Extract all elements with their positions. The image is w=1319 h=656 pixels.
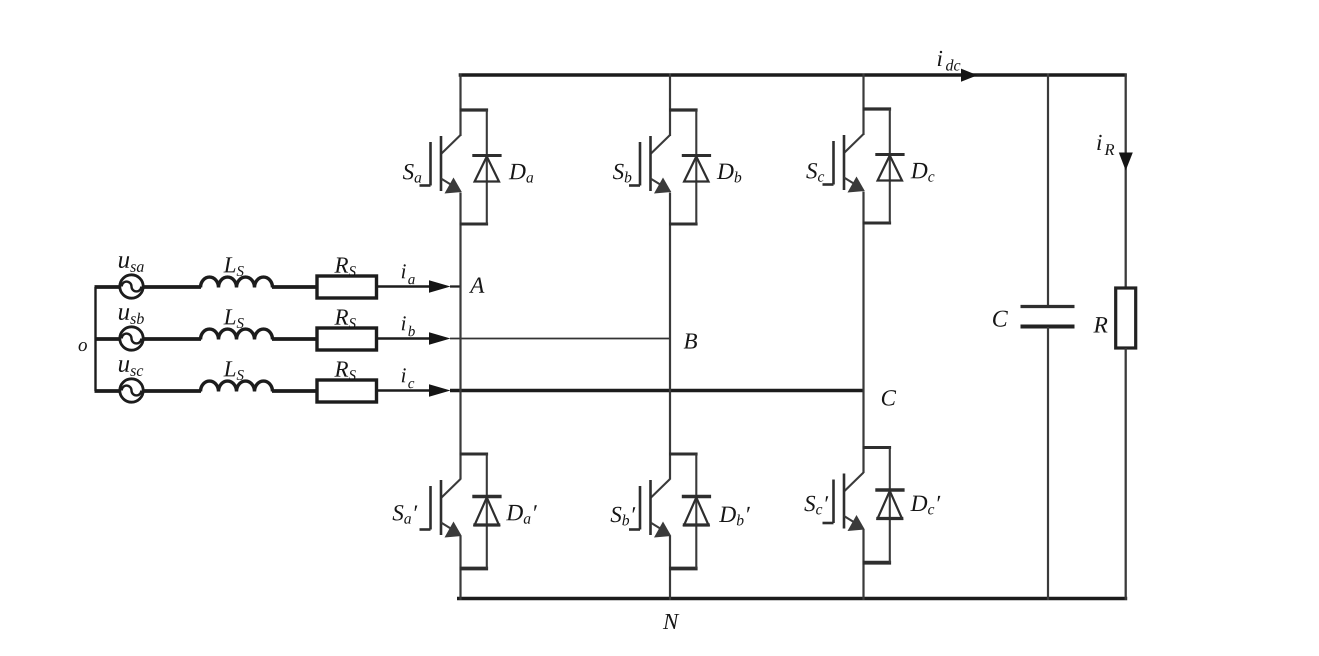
label i_dc (938, 51, 942, 66)
label u_sb (119, 308, 129, 320)
wire resistor to arrow i_b (377, 337, 435, 339)
label C (993, 311, 1008, 327)
IGBT S_a gate lead (420, 184, 431, 187)
IGBT S_c gate lead (823, 522, 834, 525)
current arrow i_dc (961, 69, 978, 82)
wire arrow to node B (450, 338, 671, 340)
IGBT S_c emitter arrow (844, 516, 855, 523)
AC source u_sa (120, 275, 143, 298)
AC source u_sb (120, 327, 143, 350)
wire upper jog (c) (863, 107, 892, 110)
IGBT S_a body bar (440, 480, 443, 535)
IGBT S_b emitter arrow (651, 179, 662, 186)
label R (1093, 317, 1107, 332)
wire lower jog (b) (669, 567, 698, 571)
IGBT S_c body bar (843, 474, 846, 529)
wire bottom DC rail (457, 597, 1127, 601)
label R_S (a) (334, 258, 348, 273)
wire phase leg c mid (862, 192, 864, 474)
IGBT S_a gate bar (429, 142, 432, 186)
wire inductor to resistor R_S (b) (272, 337, 317, 341)
current arrow i_R (1119, 153, 1133, 171)
wire phase leg b lower (669, 536, 671, 600)
label S_bprime (611, 507, 622, 522)
wire source to inductor L_S (c) (143, 389, 202, 393)
wire R branch lower (1125, 348, 1127, 600)
wire phase leg a mid (459, 193, 461, 480)
IGBT S_a emitter arrow (441, 179, 452, 186)
wire upper jog (b) (669, 453, 698, 456)
IGBT S_b body bar (649, 480, 652, 535)
wire phase leg b upper (669, 74, 671, 137)
label S_cprime (804, 496, 815, 511)
label D_aprime (506, 505, 523, 520)
wire inductor to resistor R_S (a) (272, 285, 317, 289)
wire inductor to resistor R_S (c) (272, 389, 317, 393)
inductor L_S (b) (201, 329, 273, 339)
label i_c (402, 368, 406, 382)
resistor R_S (a) (317, 276, 377, 298)
label D_bprime (719, 507, 736, 522)
wire upper jog (b) (669, 108, 698, 111)
label D_a (509, 164, 526, 179)
diode D_b triangle (684, 498, 708, 526)
wire left bus vertical (94, 287, 96, 391)
diode D_a cathode bar (472, 495, 501, 499)
wire phase leg a lower (459, 536, 461, 600)
wire lower jog (c) (863, 222, 892, 225)
IGBT S_c emitter arrow (844, 178, 855, 185)
resistor R_S (c) (317, 380, 377, 402)
diode D_a triangle (475, 157, 499, 182)
wire resistor to arrow i_c (377, 389, 435, 391)
wire upper jog (a) (460, 108, 489, 111)
label i_a (402, 264, 406, 278)
capacitor C (1021, 305, 1075, 308)
diode D branch wire (c) (889, 448, 891, 563)
current arrow i_a (429, 280, 451, 292)
IGBT S_c gate bar (832, 480, 835, 524)
wire phase leg a upper (459, 74, 461, 137)
label L_S (b) (223, 309, 235, 324)
diode D_a cathode bar (472, 154, 501, 157)
wire phase leg c lower (862, 530, 864, 601)
wire lower jog (c) (863, 561, 892, 565)
IGBT S_b gate lead (629, 528, 640, 531)
wire lower jog (a) (460, 223, 489, 226)
IGBT S_b collector lead (651, 479, 671, 498)
wire phase leg c upper (862, 74, 864, 136)
IGBT S_a body bar (440, 136, 443, 191)
IGBT S_c gate lead (823, 183, 834, 186)
wire R branch upper (1125, 74, 1127, 289)
diode D_b cathode bar (682, 154, 711, 157)
diode D_c cathode bar (875, 153, 904, 156)
IGBT S_a gate lead (420, 528, 431, 531)
diode D branch wire (c) (889, 109, 891, 223)
wire arrow to node A (450, 285, 462, 287)
wire source to inductor L_S (a) (143, 285, 202, 289)
label S_a (403, 164, 414, 179)
IGBT S_b collector lead (651, 135, 671, 154)
wire phase leg b mid (669, 193, 671, 480)
label L_S (c) (223, 361, 235, 376)
inductor L_S (a) (201, 277, 273, 287)
wire top DC rail (459, 73, 1127, 77)
diode D_c triangle (878, 156, 902, 181)
node o (79, 342, 87, 351)
wire upper jog (c) (863, 446, 892, 449)
label S_aprime (393, 505, 404, 520)
wire lower jog (b) (669, 223, 698, 226)
IGBT S_a collector lead (441, 479, 461, 498)
label u_sc (119, 360, 129, 372)
wire lower jog (a) (460, 567, 489, 571)
IGBT S_c body bar (843, 135, 846, 190)
diode D branch wire (b) (695, 454, 697, 569)
IGBT S_b gate lead (629, 184, 640, 187)
wire resistor to arrow i_a (377, 285, 435, 287)
wire capacitor branch lower (1047, 327, 1049, 600)
label D_c (911, 163, 928, 178)
IGBT S_b body bar (649, 136, 652, 191)
diode D branch wire (b) (695, 110, 697, 224)
load resistor R (1116, 288, 1136, 348)
label S_c (806, 163, 817, 178)
current arrow i_b (429, 332, 451, 344)
diode D_c triangle (878, 491, 902, 519)
IGBT S_b gate bar (639, 486, 642, 530)
label i_R (1097, 135, 1101, 150)
label i_b (402, 316, 406, 330)
diode D_a triangle (475, 498, 499, 526)
node A (469, 278, 484, 293)
label u_sa (119, 256, 129, 268)
label L_S (a) (223, 257, 235, 272)
label N (663, 614, 680, 629)
IGBT S_b gate bar (639, 142, 642, 186)
wire bus to source u_sc (95, 389, 121, 393)
diode D_c cathode bar (875, 488, 904, 492)
IGBT S_c gate bar (832, 141, 835, 185)
wire source to inductor L_S (b) (143, 337, 202, 341)
wire upper jog (a) (460, 453, 489, 456)
diode D_b triangle (684, 157, 708, 182)
wire bus to source u_sa (95, 285, 121, 289)
label D_cprime (910, 496, 927, 511)
label S_b (613, 164, 624, 179)
wire bus to source u_sb (95, 337, 121, 341)
IGBT S_b emitter arrow (651, 523, 662, 530)
label D_b (717, 164, 734, 179)
inductor L_S (c) (201, 381, 273, 391)
IGBT S_a gate bar (429, 486, 432, 530)
node B (684, 333, 697, 348)
current arrow i_c (429, 384, 451, 396)
wire arrow to node C (450, 389, 865, 393)
label R_S (c) (334, 362, 348, 377)
resistor R_S (b) (317, 328, 377, 350)
IGBT S_a collector lead (441, 135, 461, 154)
wire capacitor branch upper (1047, 74, 1049, 307)
IGBT S_c collector lead (844, 473, 864, 492)
AC source u_sc (120, 379, 143, 402)
diode D branch wire (a) (486, 454, 488, 569)
IGBT S_a emitter arrow (441, 523, 452, 530)
IGBT S_c collector lead (844, 134, 864, 153)
node C (882, 390, 896, 405)
diode D_b cathode bar (682, 495, 711, 499)
diode D branch wire (a) (486, 110, 488, 224)
label R_S (b) (334, 310, 348, 325)
